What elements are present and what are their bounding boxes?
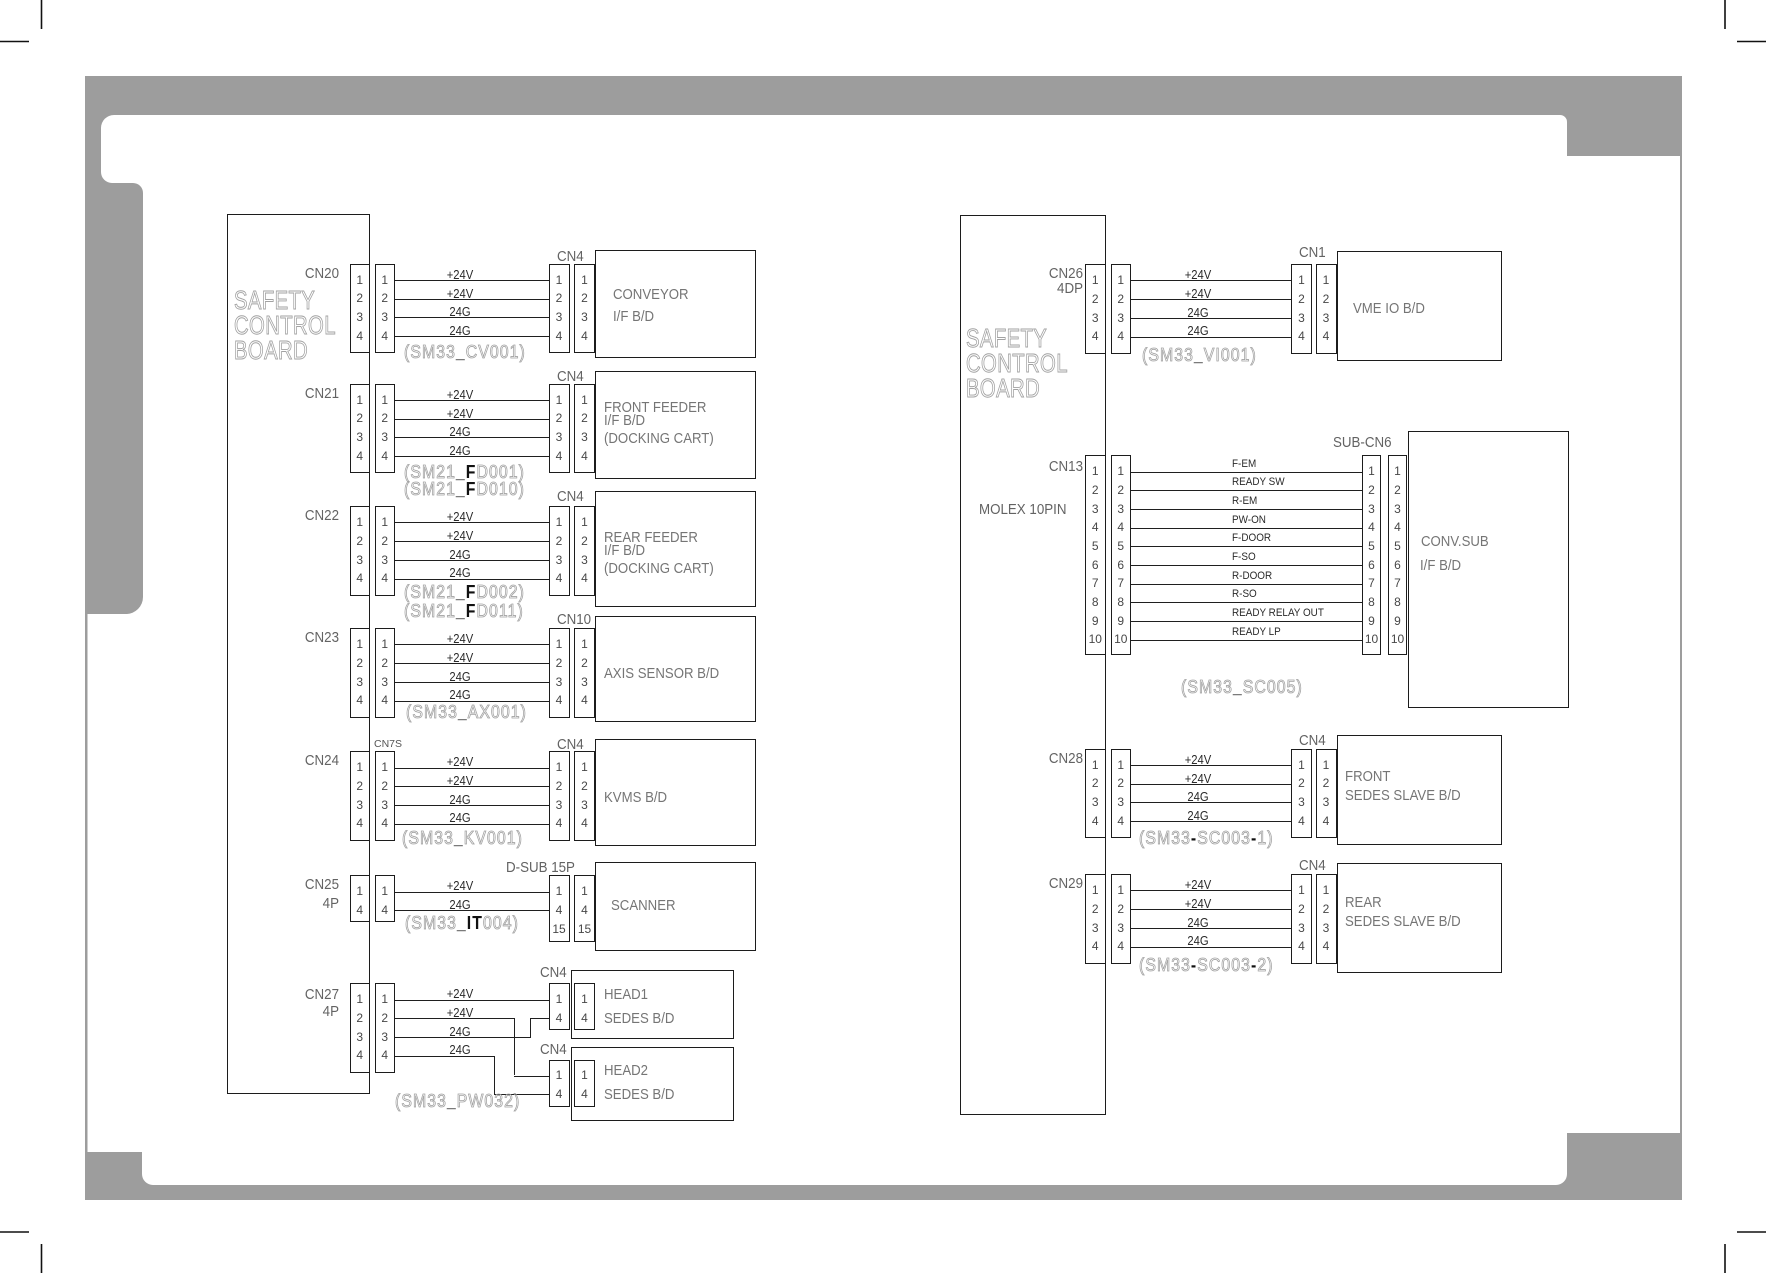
connector CN1 pin box (board side) <box>1316 264 1337 354</box>
label R-SO <box>1232 588 1257 600</box>
label CN21 <box>247 386 339 402</box>
wire CN26 pin1 +24V <box>1131 280 1291 281</box>
connector CN24 pin box (board side) <box>350 751 371 841</box>
label F-SO <box>1232 551 1256 563</box>
label R-DOOR <box>1232 570 1272 582</box>
label CN4 (HEAD1) <box>540 965 567 981</box>
wire CN13 pin5 F-DOOR <box>1131 546 1362 547</box>
wire CN13 pin10 READY LP <box>1131 640 1362 641</box>
wire CN20 pin4 24G <box>395 336 549 337</box>
connector CN20 pin box (board side) <box>350 264 371 354</box>
label +24V <box>406 268 514 282</box>
connector CN26 pin box (board side) <box>1085 264 1106 354</box>
label PW-ON <box>1232 514 1266 526</box>
wire CN29 pin2 +24V <box>1131 909 1291 910</box>
label (SM21_FD010) <box>404 479 525 500</box>
wire CN25 pin4 24G <box>395 910 549 911</box>
label (SM21_FD011) <box>404 601 524 622</box>
board CONVEYOR I/F B/D <box>595 250 757 358</box>
connector CN4 cable plug (far end) <box>549 506 570 596</box>
label CN4 <box>1299 858 1326 874</box>
wire CN28 pin4 24G <box>1131 821 1291 822</box>
connector CN23 pin box (board side) <box>350 628 371 718</box>
connector CN4 cable plug (far end) <box>549 751 570 841</box>
label CN4 <box>557 369 584 385</box>
wire CN23 pin1 +24V <box>395 644 549 645</box>
wire CN13 pin9 READY RELAY OUT <box>1131 621 1362 622</box>
label 4P <box>247 1004 339 1020</box>
wire to HEAD2 pin4 <box>494 1094 549 1095</box>
label CN25 <box>247 877 339 893</box>
board KVMS B/D <box>595 739 757 846</box>
connector CN25 mating plug <box>375 875 396 922</box>
wire CN29 pin1 +24V <box>1131 890 1291 891</box>
label (SM33-SC003-1) <box>1139 828 1274 849</box>
connector CN20 mating plug <box>375 264 396 354</box>
connector CN25 pin box (board side) <box>350 875 371 922</box>
label +24V <box>1144 268 1252 282</box>
board FRONT FEEDER I/F B/D (DOCKING CART) <box>595 371 757 479</box>
connector CN28 mating plug <box>1111 749 1132 839</box>
connector D-SUB 15P pin box (board side) <box>574 875 595 942</box>
label CN4 (HEAD2) <box>540 1042 567 1058</box>
connector D-SUB 15P cable plug (far end) <box>549 875 570 942</box>
connector CN1 cable plug (far end) <box>1291 264 1312 354</box>
label CN29 <box>991 876 1083 892</box>
label MOLEX 10PIN <box>979 502 1066 518</box>
wire CN22 pin2 +24V <box>395 541 549 542</box>
wire CN24 pin2 +24V <box>395 786 549 787</box>
label CN4 <box>1299 733 1326 749</box>
label 24G <box>1144 790 1252 804</box>
wire CN27 pin4 24G (horizontal) <box>395 1056 494 1057</box>
label (SM33_IT004) <box>405 913 519 934</box>
wire CN24 pin3 24G <box>395 805 549 806</box>
connector CN10 cable plug (far end) <box>549 628 570 718</box>
wire to HEAD1 pin4 <box>531 1018 549 1019</box>
label +24V <box>1144 772 1252 786</box>
connector CN21 mating plug <box>375 384 396 474</box>
label +24V <box>406 287 514 301</box>
label CN7S <box>374 738 402 750</box>
label 24G <box>406 670 514 684</box>
connector CN4 pin box (board side) <box>574 506 595 596</box>
label 24G <box>406 898 514 912</box>
label 24G <box>406 305 514 319</box>
wire CN27 pin3 24G (horizontal) <box>395 1037 531 1038</box>
connector CN21 pin box (board side) <box>350 384 371 474</box>
connector CN27 pin box (board side) <box>350 983 371 1073</box>
connector CN4 pin box (board side) <box>1316 749 1337 839</box>
label READY SW <box>1232 476 1285 488</box>
board HEAD1 SEDES B/D <box>571 970 734 1039</box>
label +24V <box>406 774 514 788</box>
connector CN4 pin box (board side) <box>1316 874 1337 964</box>
connector SUB-CN6 cable plug (far end) <box>1362 455 1381 655</box>
wire CN13 pin8 R-SO <box>1131 602 1362 603</box>
board U1: SAFETY CONTROL BOARD (left) <box>227 214 370 1094</box>
label CN22 <box>247 508 339 524</box>
label +24V <box>406 1006 514 1020</box>
connector CN4 pin box (HEAD1) <box>574 983 595 1030</box>
wire CN21 pin4 24G <box>395 456 549 457</box>
label R-EM <box>1232 495 1257 507</box>
label 24G <box>406 566 514 580</box>
label +24V <box>406 529 514 543</box>
wire CN29 pin3 24G <box>1131 928 1291 929</box>
wire CN13 pin6 F-SO <box>1131 565 1362 566</box>
label CN26 <box>991 266 1083 282</box>
connector CN13 pin box (board side) <box>1085 455 1106 655</box>
wire CN29 pin4 24G <box>1131 947 1291 948</box>
label 24G <box>406 425 514 439</box>
connector CN4 cable plug (HEAD1) <box>549 983 570 1030</box>
connector CN4 pin box (HEAD2) <box>574 1060 595 1107</box>
connector CN4 pin box (board side) <box>574 264 595 354</box>
connector CN4 cable plug (far end) <box>549 264 570 354</box>
label +24V <box>1144 287 1252 301</box>
label 24G <box>1144 809 1252 823</box>
wire CN13 pin4 PW-ON <box>1131 528 1362 529</box>
wire CN27 pin4 24G (vertical drop) <box>494 1056 495 1095</box>
wire CN20 pin1 +24V <box>395 280 549 281</box>
wire CN20 pin3 24G <box>395 317 549 318</box>
connector CN22 mating plug <box>375 506 396 596</box>
wire CN13 pin2 READY SW <box>1131 490 1362 491</box>
wire CN13 pin1 F-EM <box>1131 472 1362 473</box>
label +24V <box>406 388 514 402</box>
wire CN20 pin2 +24V <box>395 299 549 300</box>
label CN24 <box>247 753 339 769</box>
label 24G <box>406 1025 514 1039</box>
wire CN27 pin1 +24V to HEAD1 pin1 <box>395 1000 549 1001</box>
wire CN21 pin3 24G <box>395 437 549 438</box>
label +24V <box>1144 753 1252 767</box>
board REAR SEDES SLAVE B/D <box>1337 863 1503 973</box>
board FRONT SEDES SLAVE B/D <box>1337 735 1503 845</box>
label D-SUB 15P <box>506 860 575 876</box>
label +24V <box>406 632 514 646</box>
label (SM33_CV001) <box>404 342 526 363</box>
label SAFETY CONTROL BOARD (left) <box>234 288 336 364</box>
connector CN10 pin box (board side) <box>574 628 595 718</box>
wire CN13 pin3 R-EM <box>1131 509 1362 510</box>
label F-DOOR <box>1232 532 1271 544</box>
label (SM33_SC005) <box>1181 677 1303 698</box>
label CN20 <box>247 266 339 282</box>
label 24G <box>406 688 514 702</box>
board SCANNER <box>595 862 757 951</box>
wire CN22 pin1 +24V <box>395 522 549 523</box>
label 24G <box>1144 916 1252 930</box>
connector CN4 cable plug (far end) <box>1291 749 1312 839</box>
connector CN22 pin box (board side) <box>350 506 371 596</box>
connector CN4 cable plug (HEAD2) <box>549 1060 570 1107</box>
label (SM33_PW032) <box>395 1091 520 1112</box>
label READY LP <box>1232 626 1281 638</box>
board U2: SAFETY CONTROL BOARD (right) <box>960 215 1106 1115</box>
label F-EM <box>1232 458 1256 470</box>
wire CN23 pin2 +24V <box>395 663 549 664</box>
connector CN29 mating plug <box>1111 874 1132 964</box>
label CN27 <box>247 987 339 1003</box>
connector CN4 cable plug (far end) <box>1291 874 1312 964</box>
wire CN27 pin2 +24V (vertical drop) <box>514 1018 515 1075</box>
label (SM21_FD002) <box>404 582 525 603</box>
label 24G <box>406 1043 514 1057</box>
wire CN23 pin3 24G <box>395 682 549 683</box>
connector CN27 mating plug <box>375 983 396 1073</box>
label CN10 <box>557 612 591 628</box>
label 24G <box>406 811 514 825</box>
label 4P <box>247 896 339 912</box>
board AXIS SENSOR B/D <box>595 616 757 722</box>
label 24G <box>406 444 514 458</box>
label 24G <box>406 793 514 807</box>
label +24V <box>1144 878 1252 892</box>
board VME IO B/D <box>1337 251 1503 361</box>
wire CN27 pin3 24G (vertical rise) <box>530 1018 531 1037</box>
connector CN28 pin box (board side) <box>1085 749 1106 839</box>
label 24G <box>1144 324 1252 338</box>
wire CN27 pin2 +24V (horizontal) <box>395 1018 514 1019</box>
connector CN4 cable plug (far end) <box>549 384 570 474</box>
label +24V <box>406 879 514 893</box>
connector CN29 pin box (board side) <box>1085 874 1106 964</box>
label +24V <box>406 651 514 665</box>
label 4DP <box>991 281 1083 297</box>
label +24V <box>1144 897 1252 911</box>
wire CN25 pin1 +24V <box>395 892 549 893</box>
connector CN26 mating plug <box>1111 264 1132 354</box>
label 24G <box>406 548 514 562</box>
label 24G <box>1144 934 1252 948</box>
wire CN13 pin7 R-DOOR <box>1131 584 1362 585</box>
label 24G <box>1144 306 1252 320</box>
label (SM33-SC003-2) <box>1139 955 1274 976</box>
label CN1 <box>1299 245 1326 261</box>
label (SM33_VI001) <box>1142 345 1257 366</box>
label 24G <box>406 324 514 338</box>
label (SM33_KV001) <box>402 828 523 849</box>
wire CN22 pin4 24G <box>395 579 549 580</box>
wire CN22 pin3 24G <box>395 560 549 561</box>
wire CN21 pin2 +24V <box>395 419 549 420</box>
wire CN23 pin4 24G <box>395 701 549 702</box>
board CONV.SUB I/F B/D <box>1408 431 1569 708</box>
label +24V <box>406 407 514 421</box>
connector CN4 pin box (board side) <box>574 751 595 841</box>
connector CN13 mating plug <box>1111 455 1132 655</box>
wire to HEAD2 pin1 <box>514 1076 549 1077</box>
wire CN26 pin3 24G <box>1131 318 1291 319</box>
label CN13 <box>991 459 1083 475</box>
label +24V <box>406 755 514 769</box>
wire CN26 pin4 24G <box>1131 337 1291 338</box>
label READY RELAY OUT <box>1232 607 1324 619</box>
board REAR FEEDER I/F B/D (DOCKING CART) <box>595 491 757 607</box>
connector CN24 mating plug <box>375 751 396 841</box>
label CN28 <box>991 751 1083 767</box>
label CN4 <box>557 489 584 505</box>
wire CN28 pin2 +24V <box>1131 784 1291 785</box>
label +24V <box>406 987 514 1001</box>
label CN23 <box>247 630 339 646</box>
connector CN4 pin box (board side) <box>574 384 595 474</box>
wire CN28 pin1 +24V <box>1131 765 1291 766</box>
label SAFETY CONTROL BOARD (right) <box>966 326 1068 402</box>
wire CN26 pin2 +24V <box>1131 299 1291 300</box>
label CN4 <box>557 249 584 265</box>
wire CN24 pin1 +24V <box>395 768 549 769</box>
wire CN28 pin3 24G <box>1131 802 1291 803</box>
board HEAD2 SEDES B/D <box>571 1047 734 1122</box>
connector CN23 mating plug <box>375 628 396 718</box>
wire CN24 pin4 24G <box>395 824 549 825</box>
connector SUB-CN6 pin box (board side) <box>1388 455 1407 655</box>
wire CN21 pin1 +24V <box>395 400 549 401</box>
label CN4 <box>557 737 584 753</box>
label (SM21_FD001) <box>404 462 525 483</box>
label +24V <box>406 510 514 524</box>
label SUB-CN6 <box>1333 435 1392 451</box>
label (SM33_AX001) <box>406 702 527 723</box>
